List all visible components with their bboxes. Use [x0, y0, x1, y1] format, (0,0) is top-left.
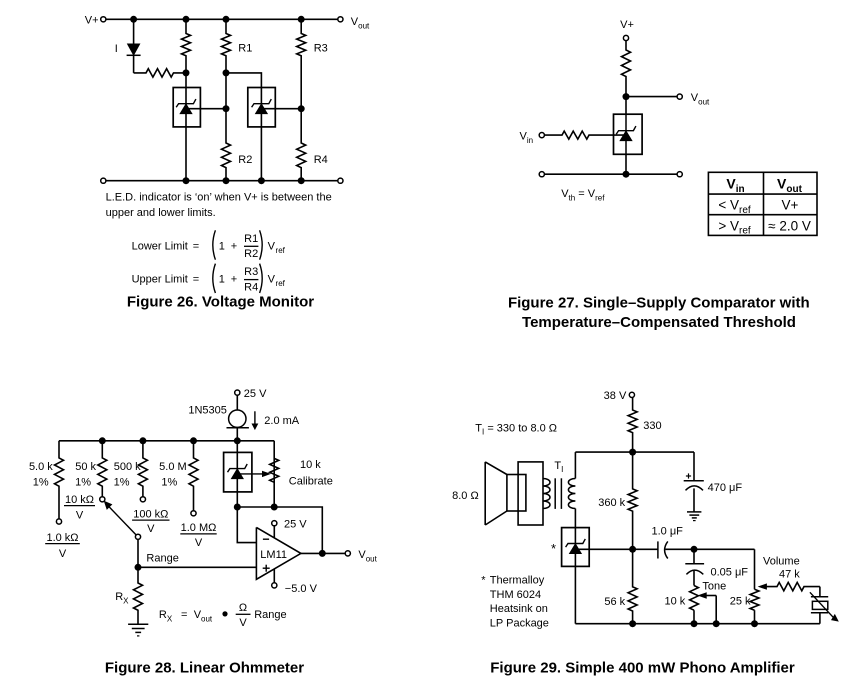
svg-text:V: V: [76, 509, 84, 521]
svg-text:25 V: 25 V: [284, 518, 307, 530]
svg-text:LP Package: LP Package: [490, 618, 549, 630]
svg-text:Figure 29. Simple 400 mW Phono: Figure 29. Simple 400 mW Phono Amplifier: [490, 660, 795, 677]
svg-text:V: V: [59, 548, 67, 560]
svg-text:Range: Range: [146, 552, 178, 564]
svg-text:=: =: [181, 609, 187, 621]
svg-text:2.0 mA: 2.0 mA: [264, 415, 300, 427]
svg-text:I: I: [115, 43, 118, 55]
svg-text:10 kΩ: 10 kΩ: [65, 494, 94, 506]
svg-text:10 k: 10 k: [300, 459, 321, 471]
svg-text:Lower Limit: Lower Limit: [132, 240, 188, 252]
svg-text:Range: Range: [254, 609, 286, 621]
svg-text:50 k: 50 k: [75, 461, 96, 473]
svg-text:V: V: [147, 523, 155, 535]
svg-text:10 k: 10 k: [665, 595, 686, 607]
svg-text:*: *: [481, 574, 486, 586]
svg-text:330: 330: [643, 420, 661, 432]
svg-text:1%: 1%: [161, 476, 177, 488]
svg-text:+: +: [231, 274, 237, 286]
svg-text:Tone: Tone: [702, 580, 726, 592]
svg-text:−5.0 V: −5.0 V: [285, 583, 318, 595]
svg-text:0.05 μF: 0.05 μF: [711, 566, 749, 578]
svg-text:1: 1: [219, 274, 225, 286]
svg-text:=: =: [193, 274, 199, 286]
svg-text:Figure 28. Linear Ohmmeter: Figure 28. Linear Ohmmeter: [105, 660, 304, 677]
svg-text:*: *: [551, 541, 556, 556]
svg-text:5.0 M: 5.0 M: [159, 461, 187, 473]
svg-text:V+: V+: [782, 198, 799, 213]
svg-text:25 V: 25 V: [244, 388, 267, 400]
svg-text:V+: V+: [85, 15, 99, 27]
svg-text:8.0 Ω: 8.0 Ω: [452, 490, 479, 502]
svg-text:R2: R2: [238, 154, 252, 166]
svg-text:R4: R4: [314, 154, 328, 166]
svg-text:56 k: 56 k: [604, 596, 625, 608]
svg-text:360 k: 360 k: [598, 497, 625, 509]
svg-text:Temperature–Compensated Thresh: Temperature–Compensated Threshold: [522, 314, 796, 331]
svg-text:R2: R2: [244, 248, 258, 260]
svg-text:1N5305: 1N5305: [188, 404, 227, 416]
svg-text:R3: R3: [244, 266, 258, 278]
svg-text:Volume: Volume: [763, 555, 800, 567]
svg-text:1%: 1%: [33, 476, 49, 488]
svg-text:1%: 1%: [75, 476, 91, 488]
svg-text:Upper Limit: Upper Limit: [132, 274, 188, 286]
svg-text:1.0 μF: 1.0 μF: [652, 526, 684, 538]
svg-text:R1: R1: [244, 233, 258, 245]
svg-text:≈ 2.0 V: ≈ 2.0 V: [768, 219, 811, 234]
svg-text:Figure 27. Single–Supply Compa: Figure 27. Single–Supply Comparator with: [508, 294, 810, 311]
svg-text:Ω: Ω: [239, 602, 247, 614]
svg-text:1.0 kΩ: 1.0 kΩ: [46, 532, 78, 544]
svg-text:1: 1: [219, 240, 225, 252]
svg-text:5.0 k: 5.0 k: [29, 461, 53, 473]
svg-text:L.E.D. indicator is ‘on’ when: L.E.D. indicator is ‘on’ when V+ is betw…: [106, 191, 332, 203]
svg-text:100 kΩ: 100 kΩ: [133, 508, 168, 520]
svg-text:Calibrate: Calibrate: [289, 476, 333, 488]
svg-text:500 k: 500 k: [114, 461, 141, 473]
svg-text:=: =: [193, 240, 199, 252]
svg-text:38 V: 38 V: [604, 390, 627, 402]
svg-text:R4: R4: [244, 282, 258, 294]
svg-text:+: +: [231, 240, 237, 252]
svg-text:LM11: LM11: [260, 549, 287, 561]
svg-text:R3: R3: [314, 43, 328, 55]
svg-text:V: V: [195, 537, 203, 549]
svg-text:V+: V+: [620, 19, 634, 31]
svg-text:1.0 MΩ: 1.0 MΩ: [181, 522, 217, 534]
svg-text:Figure 26. Voltage Monitor: Figure 26. Voltage Monitor: [127, 294, 314, 311]
svg-text:R1: R1: [238, 43, 252, 55]
svg-text:V: V: [239, 617, 247, 629]
svg-text:Heatsink on: Heatsink on: [490, 603, 548, 615]
svg-text:upper and lower limits.: upper and lower limits.: [106, 207, 216, 219]
svg-text:Thermalloy: Thermalloy: [490, 574, 545, 586]
svg-text:THM 6024: THM 6024: [490, 589, 541, 601]
svg-text:25 k: 25 k: [730, 595, 751, 607]
svg-text:1%: 1%: [114, 476, 130, 488]
svg-text:470 μF: 470 μF: [708, 482, 743, 494]
svg-text:47 k: 47 k: [779, 569, 800, 581]
